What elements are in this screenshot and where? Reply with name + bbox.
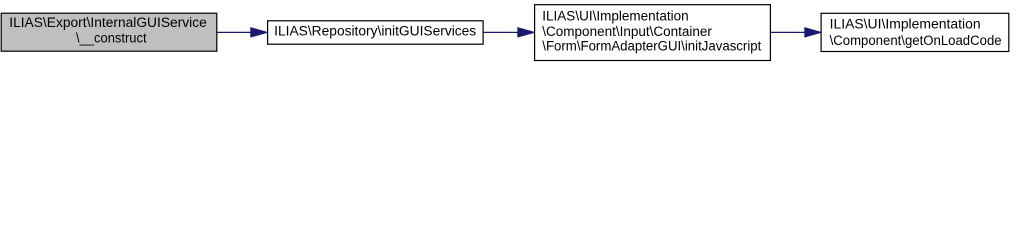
svg-text:\__construct: \__construct	[76, 30, 147, 45]
node ILIAS\Export\InternalGUIService\__construct (root, grey)	[1, 13, 217, 51]
node ILIAS\Repository\initGUIServices	[268, 21, 484, 44]
svg-text:ILIAS\Export\InternalGUIServic: ILIAS\Export\InternalGUIService	[9, 15, 207, 30]
wire arrow 3	[771, 28, 821, 37]
svg-text:\Component\getOnLoadCode: \Component\getOnLoadCode	[830, 33, 1002, 48]
svg-text:ILIAS\UI\Implementation: ILIAS\UI\Implementation	[830, 17, 981, 32]
node ILIAS\UI\Implementation\Component\getOnLoadCode	[821, 13, 1009, 51]
node ILIAS\UI\Implementation\Component\Input\Container\Form\FormAdapterGUI\initJavascript	[535, 5, 771, 61]
wire arrow 1	[217, 28, 267, 37]
svg-text:\Component\Input\Container: \Component\Input\Container	[542, 24, 712, 39]
svg-text:\Form\FormAdapterGUI\initJavas: \Form\FormAdapterGUI\initJavascript	[542, 38, 761, 53]
wire arrow 2	[483, 28, 534, 37]
svg-text:ILIAS\Repository\initGUIServic: ILIAS\Repository\initGUIServices	[274, 23, 476, 38]
svg-text:ILIAS\UI\Implementation: ILIAS\UI\Implementation	[542, 9, 688, 24]
